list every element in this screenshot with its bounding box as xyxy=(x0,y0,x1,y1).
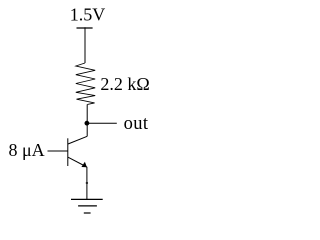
wire xyxy=(86,167,88,200)
wire joint xyxy=(86,182,88,184)
node out junction xyxy=(85,121,90,126)
resistor R1 2.2k xyxy=(76,63,95,104)
transistor Q1 xyxy=(68,123,87,167)
svg-text:2.2 kΩ: 2.2 kΩ xyxy=(100,74,149,94)
wire xyxy=(84,27,86,63)
wire xyxy=(48,150,68,152)
ground xyxy=(71,199,103,213)
power rail bar xyxy=(77,27,93,29)
wire xyxy=(87,122,117,124)
svg-text:1.5V: 1.5V xyxy=(70,4,106,24)
svg-text:out: out xyxy=(124,114,149,134)
wire xyxy=(86,104,88,123)
svg-text:8 μA: 8 μA xyxy=(9,140,45,160)
